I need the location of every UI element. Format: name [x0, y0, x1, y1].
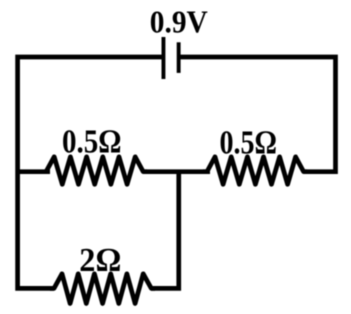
resistor R1 0.5ohm zigzag — [46, 157, 147, 185]
svg-text:2Ω: 2Ω — [79, 242, 121, 279]
wire W5: R2 right lead to right rail, up to battery right plate — [179, 57, 336, 172]
wire W2: R3 right end to middle junction vertical riser — [151, 172, 179, 289]
wire W3: left rail to R1 left lead — [18, 169, 50, 174]
resistor R2 0.5ohm zigzag — [203, 157, 307, 185]
svg-text:0.5Ω: 0.5Ω — [62, 124, 122, 161]
svg-text:0.9V: 0.9V — [150, 4, 208, 39]
wire W4: R1 right lead through node junction to R2 left lead — [143, 169, 210, 174]
resistor R3 2ohm zigzag — [50, 274, 155, 304]
battery BT1 short plate — [177, 42, 181, 73]
svg-text:0.5Ω: 0.5Ω — [219, 124, 277, 161]
battery BT1 long plate — [161, 37, 165, 79]
wire W1: battery left plate to top-left corner, down left rail, along bottom to R3 — [18, 57, 164, 288]
